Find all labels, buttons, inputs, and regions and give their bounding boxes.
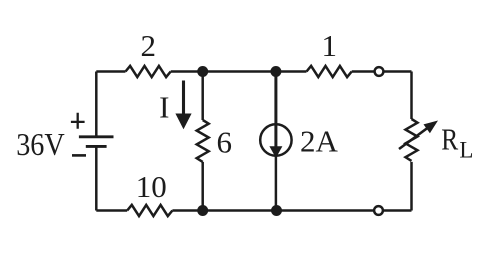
resistor 2 (top left, horizontal) bbox=[126, 66, 171, 77]
svg-text:10: 10 bbox=[136, 169, 167, 204]
svg-text:2: 2 bbox=[141, 28, 157, 63]
node C (bottom junction dot) bbox=[197, 205, 208, 216]
wire resistor2 to node A bbox=[171, 70, 203, 73]
wire top-left segment bbox=[96, 70, 125, 73]
svg-text:2A: 2A bbox=[300, 124, 339, 159]
battery source 36V long plate (+) bbox=[79, 135, 114, 138]
wire bottom terminal to bottom-right corner bbox=[383, 209, 411, 212]
wire node B down through current source (arrow shaft) bbox=[274, 72, 277, 147]
node B (top junction dot at current source) bbox=[270, 66, 281, 77]
current source 2A circle bbox=[260, 124, 291, 155]
label RL (load resistor) bbox=[441, 123, 458, 157]
wire current source to node D bbox=[275, 156, 278, 211]
svg-text:1: 1 bbox=[321, 28, 337, 63]
arrowhead of current arrow I bbox=[175, 114, 191, 130]
svg-text:6: 6 bbox=[217, 125, 233, 160]
wire left vertical bottom (battery - to bottom-left corner) bbox=[95, 146, 98, 210]
open terminal top bbox=[375, 67, 384, 76]
wire resistor 6 to node C bbox=[201, 162, 204, 211]
wire right vertical lower bbox=[410, 162, 413, 211]
plus sign of battery bbox=[71, 113, 85, 129]
svg-text:36V: 36V bbox=[16, 126, 64, 162]
wire node D to bottom open terminal bbox=[277, 209, 375, 212]
open terminal bottom bbox=[374, 206, 383, 215]
arrow through RL bbox=[399, 128, 428, 149]
arrowhead of RL arrow bbox=[424, 121, 439, 134]
battery source 36V short plate (-) bbox=[86, 145, 107, 148]
resistor 1 (top right, horizontal) bbox=[307, 66, 352, 77]
resistor 6 (middle, vertical) bbox=[197, 120, 209, 162]
wire bottom-left segment bbox=[96, 209, 127, 212]
wire right vertical upper bbox=[410, 72, 413, 120]
resistor 10 (bottom, horizontal) bbox=[127, 205, 172, 216]
wire node B to resistor 1 bbox=[276, 70, 307, 73]
svg-text:R: R bbox=[441, 123, 458, 157]
current arrow I (branch current, pointing down) bbox=[182, 81, 185, 115]
wire terminal to top-right corner bbox=[384, 70, 412, 73]
wire resistor10 to node C bbox=[172, 209, 202, 212]
wire resistor1 to open terminal bbox=[352, 70, 374, 73]
minus sign of battery bbox=[72, 154, 86, 157]
wire node C to node D bbox=[203, 209, 277, 212]
arrowhead of current source arrow bbox=[269, 146, 282, 158]
svg-text:L: L bbox=[459, 138, 473, 163]
node A (top junction dot) bbox=[197, 66, 208, 77]
svg-text:I: I bbox=[159, 90, 169, 125]
node D (bottom junction dot at current source) bbox=[271, 205, 282, 216]
resistor RL (variable, vertical) bbox=[406, 119, 418, 161]
wire left vertical top (battery + to top-left corner) bbox=[95, 72, 98, 137]
wire node A down to resistor 6 bbox=[201, 72, 204, 121]
wire node A to node B bbox=[203, 70, 276, 73]
